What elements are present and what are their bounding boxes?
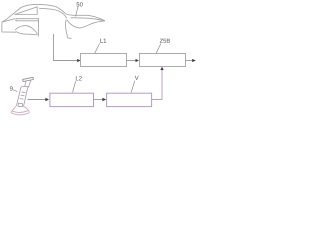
label 50 — [77, 2, 83, 6]
leader line for label 50 — [76, 7, 79, 17]
output wire from Z5B — [186, 60, 193, 62]
label 9 — [10, 86, 13, 90]
leader line for label V — [131, 81, 135, 93]
label Z5B — [160, 39, 170, 43]
block Z5B — [140, 54, 186, 67]
wire key to L2 — [28, 99, 46, 101]
label V — [135, 76, 139, 80]
block V — [107, 93, 152, 106]
key 9 — [11, 77, 33, 115]
wire L2 to V — [94, 99, 103, 101]
wire vehicle to L1 — [54, 34, 79, 61]
label L2 — [76, 76, 82, 80]
block L2 — [50, 93, 94, 106]
vehicle 50 outline — [2, 4, 105, 38]
leader line for label L1 — [95, 43, 100, 53]
leader line for label Z5B — [156, 44, 161, 54]
wire L1 to Z5B — [127, 60, 136, 62]
wire V to Z5B — [152, 68, 163, 100]
leader tick for label 9 — [13, 90, 17, 92]
block L1 — [81, 54, 127, 67]
leader line for label L2 — [73, 81, 76, 92]
label L1 — [100, 39, 106, 43]
